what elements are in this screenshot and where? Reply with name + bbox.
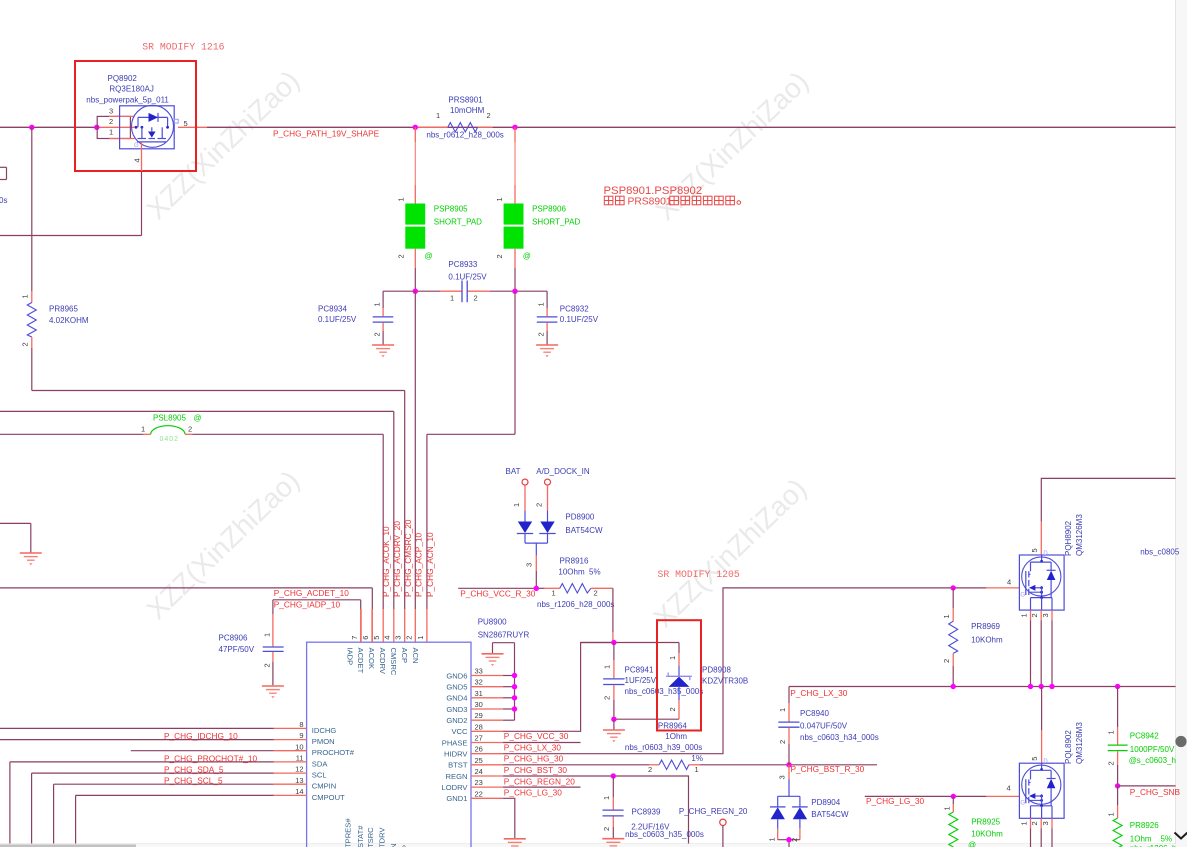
capacitor PC8940 <box>778 687 879 765</box>
svg-text:P_CHG_IADP_10: P_CHG_IADP_10 <box>274 600 341 610</box>
wire pin25 P_CHG_HG_30 <box>503 764 877 766</box>
svg-text:P_CHG_SDA_5: P_CHG_SDA_5 <box>164 765 224 775</box>
svg-text:KDZVTR30B: KDZVTR30B <box>702 676 748 685</box>
wire pin13 P_CHG_SCL_5 <box>54 784 274 843</box>
svg-text:4: 4 <box>383 636 392 640</box>
node dot BST row / PC8940 bottom <box>786 762 791 767</box>
svg-text:G: G <box>134 143 139 149</box>
wire P_CHG_SNB <box>1118 785 1176 787</box>
svg-text:5: 5 <box>1030 548 1039 552</box>
wire pin14 <box>76 795 274 843</box>
svg-text:5: 5 <box>1030 757 1039 761</box>
svg-text:1: 1 <box>537 302 546 306</box>
svg-text:3: 3 <box>109 106 113 115</box>
svg-text:PROCHOT#: PROCHOT# <box>312 748 355 757</box>
ground PC8932 <box>536 345 558 357</box>
node dot PR8969 bottom <box>951 684 956 689</box>
svg-text:1: 1 <box>436 111 440 120</box>
svg-text:ACDET: ACDET <box>356 648 365 674</box>
ui circle button <box>1175 736 1186 747</box>
svg-text:0.047UF/50V: 0.047UF/50V <box>800 721 848 730</box>
svg-text:PQH8902: PQH8902 <box>1064 520 1073 556</box>
svg-text:23: 23 <box>475 778 483 787</box>
IC left pin names <box>312 726 355 802</box>
svg-text:P_CHG_ACP_10: P_CHG_ACP_10 <box>414 533 424 597</box>
svg-text:nbs_c0603_h34_000s: nbs_c0603_h34_000s <box>800 733 879 742</box>
wire PQL8902 source pins down <box>1020 818 1053 847</box>
svg-text:@: @ <box>523 252 531 261</box>
svg-text:2: 2 <box>397 254 406 258</box>
wire pin1 ACN vertical <box>427 291 515 642</box>
svg-text:1: 1 <box>768 837 777 841</box>
diode PD8904 BAT54CW <box>768 765 849 847</box>
wire pin10 <box>131 750 274 752</box>
IC bottom pin names <box>344 818 421 847</box>
svg-text:5: 5 <box>372 636 381 640</box>
svg-text:29: 29 <box>475 711 483 720</box>
svg-text:REGN: REGN <box>446 772 468 781</box>
svg-text:12: 12 <box>295 765 303 774</box>
svg-text:8: 8 <box>299 720 303 729</box>
ground PC8934 <box>372 345 394 357</box>
ground left <box>0 523 31 552</box>
svg-text:SHORT_PAD: SHORT_PAD <box>434 218 482 227</box>
svg-text:2: 2 <box>487 111 491 120</box>
svg-text:4: 4 <box>133 158 142 162</box>
svg-text:PQ8902: PQ8902 <box>108 74 138 83</box>
capacitor PC8906 <box>219 600 284 686</box>
svg-text:14: 14 <box>295 787 303 796</box>
svg-text:PR8916: PR8916 <box>560 557 589 566</box>
svg-text:1: 1 <box>1106 812 1115 816</box>
svg-text:1%: 1% <box>691 754 703 763</box>
svg-text:2: 2 <box>594 589 598 598</box>
svg-text:0402: 0402 <box>160 436 180 443</box>
node junction dot A <box>29 125 34 130</box>
IC top pin names <box>345 648 420 676</box>
ground PC8939 <box>602 839 624 847</box>
svg-text:1: 1 <box>668 656 677 660</box>
wire P_CHG_LG_30 <box>865 795 1020 797</box>
svg-text:TDRV: TDRV <box>378 827 387 847</box>
IC top pin numbers <box>350 636 425 640</box>
svg-text:TPRES#: TPRES# <box>344 818 353 847</box>
svg-text:27: 27 <box>475 734 483 743</box>
svg-text:GND2: GND2 <box>446 716 467 725</box>
svg-text:2: 2 <box>602 827 611 831</box>
svg-text:P_CHG_REGN_20: P_CHG_REGN_20 <box>504 776 575 786</box>
port BAT <box>506 467 529 511</box>
wire pin4 ACDRV vertical <box>393 411 395 642</box>
resistor PR8964 <box>625 721 703 774</box>
ground PU8900 <box>482 654 504 666</box>
svg-text:47PF/50V: 47PF/50V <box>219 645 255 654</box>
svg-text:LODRV: LODRV <box>441 783 468 792</box>
svg-text:30: 30 <box>475 700 483 709</box>
wire pin2 ACP vertical <box>414 291 416 642</box>
svg-text:2: 2 <box>537 332 546 336</box>
transistor PQH8902 <box>1019 514 1084 610</box>
node dot PC8941 bottom <box>611 717 616 722</box>
svg-text:2: 2 <box>535 503 544 507</box>
wire from node A down to PR8965 <box>31 127 33 291</box>
port A/D_DOCK_IN <box>535 467 590 511</box>
svg-text:@: @ <box>968 841 976 847</box>
node dot LG / PR8925 <box>951 794 956 799</box>
svg-text:1UF/25V: 1UF/25V <box>625 676 657 685</box>
svg-text:BAT54CW: BAT54CW <box>565 526 603 535</box>
svg-text:IADP: IADP <box>345 648 354 666</box>
node dot PC8942 top <box>1115 684 1120 689</box>
svg-text:SN2867RUYR: SN2867RUYR <box>478 631 530 640</box>
svg-text:PSP8905: PSP8905 <box>434 204 468 213</box>
node junction dot B <box>94 125 99 130</box>
svg-text:PR8925: PR8925 <box>971 818 1000 827</box>
op-amp/IC PU8900 SN2867RUYR body <box>307 618 530 847</box>
svg-text:31: 31 <box>475 689 483 698</box>
svg-text:1: 1 <box>21 294 30 298</box>
svg-text:4.02KOHM: 4.02KOHM <box>49 316 89 325</box>
svg-text:1: 1 <box>141 424 145 433</box>
node dots GND chain <box>512 673 517 712</box>
wire pin12 P_CHG_SDA_5 <box>32 773 274 843</box>
svg-text:3: 3 <box>1041 613 1050 617</box>
svg-text:P_CHG_ACDRV_20: P_CHG_ACDRV_20 <box>392 521 402 597</box>
red box SR MODIFY 1205 <box>657 620 701 730</box>
svg-text:PD8908: PD8908 <box>702 665 731 674</box>
diode PD8900 BAT54CW <box>517 511 603 589</box>
svg-text:2: 2 <box>1030 613 1039 617</box>
svg-text:25: 25 <box>475 756 483 765</box>
wire pin27 P_CHG_VCC_30 <box>503 742 581 744</box>
svg-text:3: 3 <box>1041 821 1050 825</box>
IC right pin stubs <box>471 676 503 799</box>
svg-text:HIDRV: HIDRV <box>444 750 468 759</box>
svg-text:2: 2 <box>778 740 787 744</box>
wire pin28 VCC to PD8908 row <box>503 643 613 732</box>
wire P_CHG_PATH_19V main horizontal <box>0 126 1176 128</box>
diode PD8908 KDZVTR30B (zener) <box>666 643 748 720</box>
resistor PR8965 <box>21 291 89 391</box>
svg-text:2: 2 <box>1030 821 1039 825</box>
svg-text:RQ3E180AJ: RQ3E180AJ <box>109 85 153 94</box>
svg-text:GND4: GND4 <box>446 694 467 703</box>
svg-text:PC8932: PC8932 <box>560 304 589 313</box>
svg-text:PSP8906: PSP8906 <box>532 204 566 213</box>
wire PR8965 to pin3 CMSRC <box>32 390 405 392</box>
wire P_CHG_IADP_10 <box>273 600 361 642</box>
svg-text:nbs_c0805: nbs_c0805 <box>1140 547 1180 556</box>
capacitor PC8939 <box>602 776 704 839</box>
wire down to PSP8906 <box>514 127 516 203</box>
resistor PR8969 <box>942 588 1003 687</box>
watermark <box>141 65 815 634</box>
wire PR8916 pin2 down to PD8908 row <box>612 588 614 642</box>
svg-text:P_CHG_BST_R_30: P_CHG_BST_R_30 <box>791 764 865 774</box>
svg-text:SCL: SCL <box>312 771 327 780</box>
svg-text:2: 2 <box>405 636 414 640</box>
svg-text:2: 2 <box>648 765 652 774</box>
svg-text:PMON: PMON <box>312 737 335 746</box>
svg-text:0s: 0s <box>0 196 7 205</box>
svg-text:1: 1 <box>416 636 425 640</box>
svg-text:@: @ <box>194 413 202 422</box>
svg-text:VCC: VCC <box>451 727 468 736</box>
svg-text:P_CHG_VCC_30: P_CHG_VCC_30 <box>504 731 569 741</box>
node dot P_CHG_SNB <box>1115 783 1120 788</box>
svg-text:CMPIN: CMPIN <box>312 782 336 791</box>
wire pin24 P_CHG_BST_30 <box>503 776 689 844</box>
svg-text:1: 1 <box>263 633 272 637</box>
node dots PQH sources on LX <box>1028 684 1055 689</box>
svg-text:nbs_r0612_h28_000s: nbs_r0612_h28_000s <box>426 130 503 139</box>
node dot PC8939 top <box>611 773 616 778</box>
wire PQ8902 pin4 <box>0 142 142 236</box>
svg-text:PR8964: PR8964 <box>658 721 687 730</box>
svg-text:1: 1 <box>373 302 382 306</box>
svg-text:2: 2 <box>495 254 504 258</box>
wire ACDRV row <box>0 410 394 412</box>
svg-text:1: 1 <box>602 796 611 800</box>
svg-text:BAT54CW: BAT54CW <box>811 810 849 819</box>
svg-text:P_CHG_ACDET_10: P_CHG_ACDET_10 <box>274 588 350 598</box>
svg-text:SDA: SDA <box>312 759 329 768</box>
capacitor PC8942 (green) <box>1106 687 1176 786</box>
wire pin8 <box>0 727 274 729</box>
svg-text:1: 1 <box>1020 821 1029 825</box>
svg-text:2: 2 <box>668 707 677 711</box>
capacitor PC8934 <box>318 291 393 344</box>
svg-text:P_CHG_ACN_10: P_CHG_ACN_10 <box>425 532 435 597</box>
resistor PR8916 <box>537 557 614 609</box>
resistor PR8925 <box>943 796 1004 847</box>
capacitor PC8932 <box>537 291 599 344</box>
wire PQH8902 drain to top right <box>1041 478 1175 521</box>
svg-text:PQL8902: PQL8902 <box>1064 730 1073 764</box>
wire PQH8902 source pins down to LX <box>1020 610 1053 686</box>
note PSP8901.PSP8902 (red) <box>604 185 703 197</box>
svg-text:P_CHG_LG_30: P_CHG_LG_30 <box>504 788 562 798</box>
svg-text:CMPOUT: CMPOUT <box>312 793 345 802</box>
svg-text:PU8900: PU8900 <box>478 618 507 627</box>
node junction dot PRS8901 pin2 <box>512 125 517 130</box>
svg-text:@s_c0603_h: @s_c0603_h <box>1129 756 1176 765</box>
svg-text:A/D_DOCK_IN: A/D_DOCK_IN <box>536 467 590 476</box>
svg-text:nbs_r0603_h39_000s: nbs_r0603_h39_000s <box>625 743 702 752</box>
wire PSP8906 pin2 down <box>514 249 516 292</box>
svg-text:1: 1 <box>1020 613 1029 617</box>
svg-text:1: 1 <box>495 197 504 201</box>
svg-text:7: 7 <box>350 636 359 640</box>
svg-text:PC8934: PC8934 <box>318 304 347 313</box>
svg-text:2: 2 <box>188 424 192 433</box>
svg-text:P_CHG_REGN_20: P_CHG_REGN_20 <box>679 807 748 816</box>
svg-text:1: 1 <box>942 614 951 618</box>
svg-text:1: 1 <box>695 765 699 774</box>
svg-text:CMSRC: CMSRC <box>389 648 398 676</box>
svg-text:IDCHG: IDCHG <box>312 726 337 735</box>
IC right pin names <box>441 671 468 803</box>
svg-text:PR8965: PR8965 <box>49 305 78 314</box>
svg-text:3: 3 <box>778 775 787 779</box>
left edge component fragment <box>0 167 7 179</box>
wire pin5 ACOK vertical <box>382 434 384 642</box>
transistor PQ8902 <box>75 61 196 171</box>
svg-text:P_CHG_IDCHG_10: P_CHG_IDCHG_10 <box>164 731 238 741</box>
node junction dot PC8933 right <box>512 289 517 294</box>
node junction dot VCC_R <box>534 586 539 591</box>
wire pin11 P_CHG_PROCHOT#_10 <box>10 762 274 844</box>
ground PC8941 <box>613 719 615 729</box>
wire PD8908 bottom row <box>614 718 679 720</box>
svg-text:PSP8901.PSP8902: PSP8901.PSP8902 <box>604 185 703 197</box>
svg-text:26: 26 <box>475 745 483 754</box>
node junction dot PRS8901 pin1 <box>413 125 418 130</box>
svg-text:1: 1 <box>109 128 113 137</box>
svg-text:2: 2 <box>109 117 113 126</box>
svg-text:P_CHG_CMSRC_20: P_CHG_CMSRC_20 <box>403 519 413 597</box>
svg-text:SHORT_PAD: SHORT_PAD <box>532 218 580 227</box>
svg-text:10Ohm: 10Ohm <box>558 568 585 577</box>
wire P_CHG_ACDET_10 <box>0 588 372 642</box>
svg-text:PC8933: PC8933 <box>448 260 477 269</box>
svg-text:2: 2 <box>1106 761 1115 765</box>
svg-text:P_CHG_VCC_R_30: P_CHG_VCC_R_30 <box>460 588 536 598</box>
svg-text:GND1: GND1 <box>446 794 467 803</box>
inductor PSL8905 <box>0 413 383 443</box>
svg-text:P_CHG_HG_30: P_CHG_HG_30 <box>504 754 564 764</box>
wire P_CHG_VCC_R_30 <box>458 587 544 589</box>
svg-text:1Ohm: 1Ohm <box>1130 834 1152 843</box>
svg-text:P_CHG_PATH_19V_SHAPE: P_CHG_PATH_19V_SHAPE <box>273 129 380 139</box>
svg-text:PD8900: PD8900 <box>565 513 594 522</box>
scrollbar track right <box>1176 0 1187 847</box>
svg-text:PC8942: PC8942 <box>1130 732 1159 741</box>
svg-text:ACP: ACP <box>400 648 409 664</box>
wire PD8908 top row <box>581 642 679 644</box>
svg-text:PC8940: PC8940 <box>800 709 829 718</box>
svg-text:nbs_powerpak_5p_011: nbs_powerpak_5p_011 <box>86 95 169 104</box>
svg-text:10mOHM: 10mOHM <box>450 106 485 115</box>
svg-text:3: 3 <box>525 563 534 567</box>
svg-text:PC8939: PC8939 <box>632 808 661 817</box>
svg-text:P_CHG_SNB: P_CHG_SNB <box>1130 787 1181 797</box>
IC top pin stubs <box>361 609 372 642</box>
svg-text:1: 1 <box>1106 730 1115 734</box>
svg-text:P_CHG_PROCHOT#_10: P_CHG_PROCHOT#_10 <box>164 753 258 763</box>
svg-text:11: 11 <box>296 754 304 763</box>
svg-text:33: 33 <box>475 667 483 676</box>
svg-text:SR MODIFY 1205: SR MODIFY 1205 <box>658 569 740 580</box>
svg-text:GND3: GND3 <box>446 705 467 714</box>
short pad PSP8906 <box>495 197 581 260</box>
svg-text:1000PF/50V: 1000PF/50V <box>1130 745 1175 754</box>
svg-text:10KOhm: 10KOhm <box>971 829 1003 838</box>
wire PC8933 row horizontal <box>383 290 547 292</box>
svg-text:P_CHG_LX_30: P_CHG_LX_30 <box>790 688 848 698</box>
svg-text:TSRC: TSRC <box>366 827 375 847</box>
svg-text:N: N <box>389 844 398 847</box>
scrollbar track bottom <box>0 844 1176 847</box>
svg-text:9: 9 <box>299 731 303 740</box>
svg-text:1: 1 <box>603 665 612 669</box>
IC left pin numbers <box>295 720 303 796</box>
svg-text:GND5: GND5 <box>446 683 467 692</box>
svg-text:10: 10 <box>295 742 303 751</box>
svg-text:P_CHG_LG_30: P_CHG_LG_30 <box>866 796 924 806</box>
svg-text:PRS8901: PRS8901 <box>628 196 672 207</box>
ground PC8906 <box>262 686 284 698</box>
svg-text:24: 24 <box>475 767 483 776</box>
node dot PR8969 gate <box>951 585 956 590</box>
resistor PR8926 (green) <box>1106 786 1176 847</box>
svg-text:1: 1 <box>450 294 454 303</box>
svg-text:PHASE: PHASE <box>442 738 468 747</box>
ui chevron <box>1175 833 1187 839</box>
svg-text:GND6: GND6 <box>446 671 467 680</box>
wire P_CHG_LX_30 main <box>789 686 1176 688</box>
svg-text:QM3126M3: QM3126M3 <box>1075 722 1084 764</box>
svg-text:10KOhm: 10KOhm <box>971 636 1003 645</box>
svg-text:ACDRV: ACDRV <box>378 648 387 675</box>
svg-text:5%: 5% <box>1161 834 1173 843</box>
svg-text:ACOK: ACOK <box>367 648 376 670</box>
svg-text:1: 1 <box>512 503 521 507</box>
svg-text:0.1UF/25V: 0.1UF/25V <box>318 315 357 324</box>
svg-text:@: @ <box>425 252 433 261</box>
svg-text:nbs_c0603_h35_000s: nbs_c0603_h35_000s <box>625 687 704 696</box>
svg-text:3: 3 <box>394 636 403 640</box>
svg-text:PRS8901: PRS8901 <box>448 96 483 105</box>
svg-text:1: 1 <box>397 197 406 201</box>
svg-text:ACN: ACN <box>411 648 420 664</box>
svg-text:1: 1 <box>778 708 787 712</box>
node dot PD8904 bottom <box>786 837 791 842</box>
wire pin22 GND1 <box>503 798 515 838</box>
svg-text:PSL8905: PSL8905 <box>153 413 186 422</box>
svg-text:5%: 5% <box>589 568 601 577</box>
capacitor PC8941 <box>603 643 704 720</box>
IC left pin stubs <box>274 728 307 795</box>
svg-text:6: 6 <box>361 636 370 640</box>
svg-text:STAT#: STAT# <box>356 825 365 847</box>
svg-text:PR8969: PR8969 <box>971 622 1000 631</box>
svg-text:22: 22 <box>475 789 483 798</box>
svg-text:2: 2 <box>263 663 272 667</box>
svg-text:5: 5 <box>184 119 188 128</box>
node junction dot PC8933 left <box>413 289 418 294</box>
wire PQL8902 drain from LX <box>1041 687 1043 764</box>
transistor PQL8902 <box>1019 722 1084 819</box>
svg-text:nbs_r1206_h28_000s: nbs_r1206_h28_000s <box>537 600 614 609</box>
svg-text:nbs_c0603_h35_000s: nbs_c0603_h35_000s <box>625 830 704 839</box>
svg-text:0.1UF/25V: 0.1UF/25V <box>448 272 487 281</box>
svg-text:PR8926: PR8926 <box>1130 821 1159 830</box>
svg-text:2: 2 <box>603 696 612 700</box>
note chinese line (fake CJK glyph boxes) <box>604 196 624 205</box>
wire down to PSP8905 <box>414 127 416 203</box>
svg-text:32: 32 <box>475 678 483 687</box>
svg-text:P_CHG_BST_30: P_CHG_BST_30 <box>504 765 568 775</box>
svg-text:P_CHG_LX_30: P_CHG_LX_30 <box>504 742 562 752</box>
svg-text:PD8904: PD8904 <box>811 798 840 807</box>
wire pin3 CMSRC vertical <box>404 391 406 643</box>
wire pin23 P_CHG_REGN_20 <box>503 786 581 788</box>
ground GND1 <box>504 839 526 847</box>
svg-text:P_CHG_ACOK_10: P_CHG_ACOK_10 <box>381 526 391 597</box>
svg-text:QM3126M3: QM3126M3 <box>1075 514 1084 556</box>
svg-text:2: 2 <box>21 342 30 346</box>
